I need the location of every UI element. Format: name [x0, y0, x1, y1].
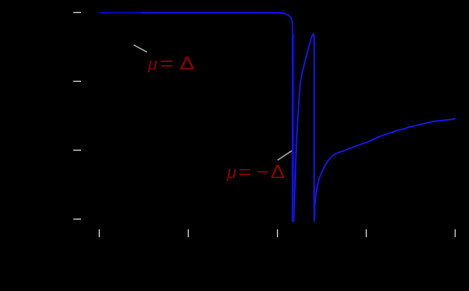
svg-text:μ: μ [147, 55, 158, 74]
annotation line to upper curve [134, 45, 147, 52]
svg-text:μ: μ [226, 163, 237, 182]
x tick 5 [454, 229, 456, 237]
x tick 1 [98, 229, 100, 237]
x tick 4 [365, 229, 367, 237]
svg-text:Δ: Δ [271, 162, 285, 183]
svg-text:=: = [238, 162, 251, 183]
svg-text:−: − [256, 162, 269, 183]
y tick 4 [73, 218, 81, 220]
y tick 3 [73, 149, 81, 151]
thin dark-blue flat segment of upper curve [99, 12, 284, 14]
right branch rising from asymptote [315, 119, 456, 219]
x tick 3 [277, 229, 279, 237]
svg-text:Δ: Δ [180, 53, 195, 74]
rising middle branch with peak and right-side drop [294, 34, 315, 222]
svg-text:=: = [160, 53, 174, 74]
y tick 2 [73, 80, 81, 82]
bright blue flat overlay with corner and left vertical plunge [141, 13, 292, 222]
annotation line to middle branch [278, 151, 292, 161]
x tick 2 [187, 229, 189, 237]
second overlapping vertical of plunge [293, 34, 295, 222]
y tick 1 [73, 12, 81, 14]
